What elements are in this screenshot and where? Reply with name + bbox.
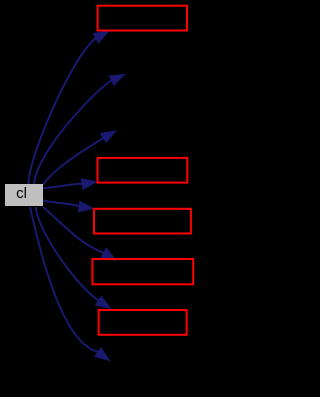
node box5 [99, 310, 187, 335]
node box3 [94, 209, 191, 234]
wire edge2 [34, 75, 125, 185]
node box1 [98, 6, 187, 31]
wire edge5 [43, 201, 93, 212]
node box2 [98, 158, 188, 183]
wire edge7 [36, 207, 111, 308]
wire edge4 [43, 179, 97, 189]
node cl [5, 184, 43, 206]
node box4 [92, 259, 193, 284]
wire edge6 [43, 207, 116, 260]
wire edge3 [43, 131, 116, 185]
wire edge8 [30, 207, 110, 361]
wire edge1 [29, 31, 109, 184]
svg-text:cl: cl [16, 185, 27, 202]
